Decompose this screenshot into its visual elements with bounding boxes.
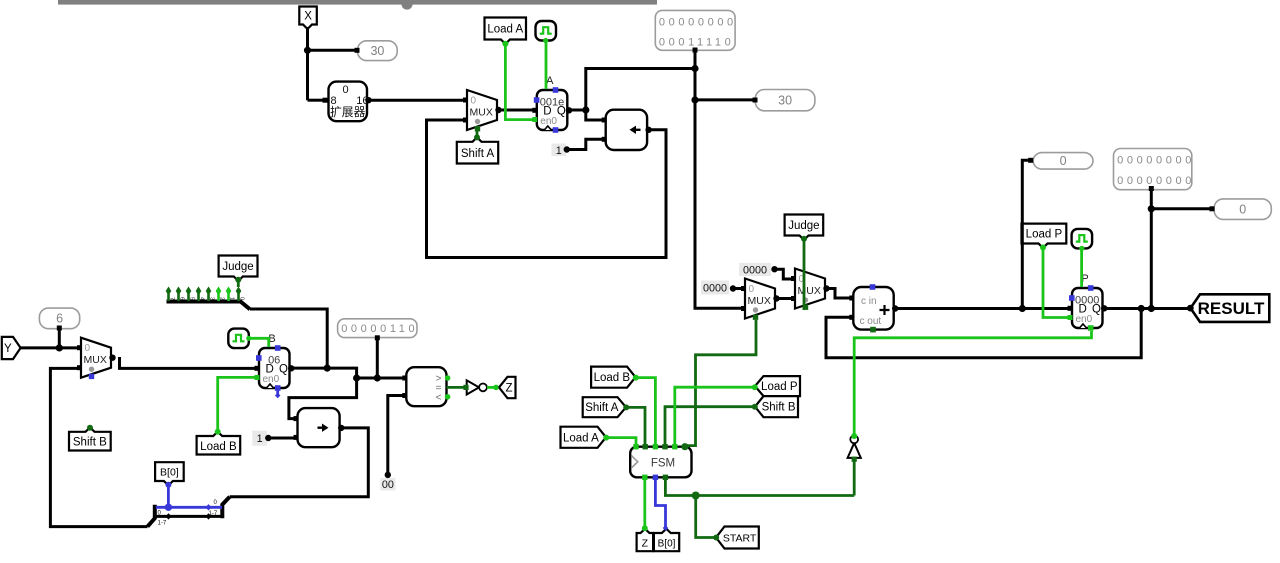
svg-text:Q: Q	[279, 363, 288, 375]
tunnel B[0] (FSM bottom)	[654, 529, 679, 551]
clock CLK2	[228, 329, 251, 349]
wire FSM B[0] out (blue)	[655, 477, 668, 531]
wire comparator = to inverter	[447, 386, 466, 389]
not gate U10 (START inverter)	[848, 433, 861, 462]
splitter S2 (left)	[148, 505, 167, 527]
shifter left U2	[602, 110, 652, 150]
svg-text:0: 0	[239, 297, 245, 300]
wire Judge to mux U8 select	[801, 236, 807, 310]
wire Judge to splitter S1	[235, 277, 241, 287]
wire Shift B tunnel stub	[87, 425, 93, 431]
svg-text:Load B: Load B	[200, 441, 237, 453]
constant 1 (A shifter)	[552, 144, 571, 157]
clock CLK3	[1072, 229, 1093, 251]
svg-text:0000: 0000	[743, 264, 767, 276]
svg-text:Load B: Load B	[594, 372, 631, 384]
svg-text:Load P: Load P	[761, 381, 798, 393]
svg-text:Load A: Load A	[487, 24, 523, 36]
wire mux U3 to register B (broken)	[120, 357, 256, 368]
tunnel Load P (top right)	[1022, 224, 1067, 248]
wire B to shifter U4	[289, 378, 357, 419]
wire adder to register P	[895, 305, 1067, 312]
svg-text:en0: en0	[263, 374, 280, 385]
wire P feedback to adder	[826, 309, 1141, 358]
svg-text:7: 7	[169, 297, 175, 300]
wire B bus to display B	[375, 335, 380, 378]
svg-text:Z: Z	[642, 538, 649, 550]
tunnel Load A (top)	[485, 18, 527, 45]
mux U7	[741, 279, 780, 320]
wire Shift B FSM	[665, 404, 758, 446]
constant 0000 a	[701, 281, 736, 295]
svg-text:0000: 0000	[703, 283, 727, 295]
constant 00	[380, 472, 395, 491]
wire Shift A FSM	[623, 404, 645, 446]
tunnel Shift A (top)	[457, 137, 498, 163]
svg-text:6: 6	[179, 297, 185, 300]
wire FSM to START / inverter	[665, 461, 854, 541]
svg-text:1: 1	[229, 297, 235, 300]
wire Load P FSM	[675, 384, 758, 446]
svg-text:3: 3	[209, 297, 215, 300]
splitter S3 (right)	[209, 497, 230, 519]
svg-text:0: 0	[749, 284, 755, 295]
svg-text:6: 6	[56, 312, 63, 326]
wire Y to mux U3	[21, 326, 78, 352]
register A	[532, 75, 572, 133]
wire clock CLK2 to register B	[249, 338, 269, 347]
tunnel Shift A (FSM)	[583, 397, 626, 417]
wire mux U7 to mux U8	[777, 297, 793, 300]
svg-text:1: 1	[556, 145, 562, 157]
wire constant 1 to shifter U4	[268, 437, 294, 440]
svg-text:Shift A: Shift A	[461, 148, 495, 160]
svg-text:<: <	[436, 393, 442, 404]
svg-text:00000000: 00000000	[1117, 175, 1195, 187]
wire inverter to Z	[487, 386, 499, 389]
clock CLK1	[536, 21, 557, 43]
svg-text:2: 2	[219, 297, 225, 300]
sign extender 扩展器	[323, 82, 372, 122]
svg-text:MUX: MUX	[470, 107, 493, 119]
constant 1 (B shifter)	[252, 431, 271, 446]
wire FSM to mux U7 select	[681, 320, 756, 450]
wire splitter S1 bus	[250, 309, 327, 368]
wire shifter U4 to splitter S3	[230, 428, 369, 497]
svg-text:Judge: Judge	[222, 261, 253, 273]
binary display P (16-bit)	[1114, 149, 1196, 190]
wire Load A tunnel to register A en	[502, 41, 533, 120]
svg-text:Load A: Load A	[563, 432, 599, 444]
svg-text:0: 0	[1239, 202, 1246, 216]
probe 6 (B value)	[39, 308, 79, 329]
register P	[1068, 273, 1108, 331]
mux U1 (A input select)	[463, 90, 502, 131]
tunnel Y	[2, 337, 21, 359]
svg-text:MUX: MUX	[84, 354, 107, 366]
tunnel Load P (FSM)	[755, 376, 800, 396]
svg-text:B[0]: B[0]	[160, 467, 179, 479]
svg-text:0: 0	[1060, 154, 1067, 168]
tunnel Shift B (bottom left)	[69, 428, 111, 451]
wire shift loop (U2 out to mux U1)	[427, 120, 667, 258]
svg-text:X: X	[304, 11, 312, 23]
wire register A Q net	[568, 69, 696, 121]
tunnel Z (output)	[499, 377, 516, 398]
wire constant 0000a to mux U7	[733, 287, 743, 290]
svg-text:00011110: 00011110	[659, 37, 734, 49]
wire X to probe/extender	[304, 27, 360, 100]
svg-text:00000110: 00000110	[341, 323, 418, 335]
probe 30 (A value)	[755, 90, 815, 111]
wire register P Q to RESULT	[1104, 305, 1194, 312]
tunnel Judge (splitter)	[219, 256, 258, 282]
svg-text:4: 4	[199, 297, 205, 300]
binary display B (8-bit)	[338, 319, 419, 338]
svg-text:0: 0	[85, 343, 91, 354]
tunnel X	[299, 7, 317, 30]
tunnel START	[716, 527, 759, 549]
wire probe 0a tap	[1022, 158, 1033, 309]
svg-text:c out: c out	[860, 316, 882, 327]
wire Load B tunnel to register B en	[215, 377, 255, 434]
tunnel Judge (FSM area)	[785, 215, 824, 241]
wire Load B FSM	[633, 375, 656, 446]
wire inverter to register P reset	[854, 331, 1091, 436]
svg-text:Q: Q	[1092, 303, 1101, 315]
svg-text:Load P: Load P	[1026, 229, 1063, 241]
wire Shift A tunnel to mux U1 select	[474, 128, 480, 140]
svg-text:Y: Y	[4, 343, 12, 355]
svg-text:c in: c in	[861, 296, 877, 307]
svg-text:00000000: 00000000	[659, 16, 737, 28]
wire clock CLK1 to register A	[545, 41, 548, 90]
shifter right U4	[294, 408, 345, 447]
wire clock CLK3 to register P	[1080, 247, 1083, 287]
svg-text:Shift B: Shift B	[762, 402, 796, 414]
binary display A (16-bit)	[655, 10, 737, 50]
svg-text:5: 5	[189, 297, 195, 300]
probe 0 (P value)	[1214, 199, 1271, 220]
wire Load A FSM	[603, 435, 636, 446]
mux U8	[791, 269, 830, 310]
svg-text:Q: Q	[557, 105, 566, 117]
svg-text:RESULT: RESULT	[1198, 299, 1265, 318]
svg-text:Shift A: Shift A	[585, 402, 619, 414]
svg-text:en0: en0	[1076, 314, 1093, 325]
svg-text:FSM: FSM	[651, 458, 675, 470]
constant 0000 b	[739, 263, 778, 277]
wire display A bus down	[691, 48, 757, 309]
svg-text:START: START	[723, 533, 757, 545]
wire mux U8 to adder	[827, 289, 851, 299]
wire mux U1 out to register A	[498, 109, 534, 112]
FSM pins	[633, 444, 677, 480]
wire splitter bits 1-7	[156, 513, 221, 519]
tunnel B[0] (splitter)	[155, 462, 184, 485]
tunnel RESULT	[1191, 294, 1270, 322]
window splitter bar	[58, 0, 657, 10]
wire B[0] net (blue)	[156, 482, 222, 511]
splitter S1 (B bus fan-out)	[166, 287, 250, 310]
probe 0 (c out)	[1033, 153, 1093, 170]
svg-text:MUX: MUX	[798, 285, 821, 297]
svg-text:30: 30	[370, 44, 384, 58]
tunnel Load A (FSM)	[561, 427, 607, 448]
svg-text:Judge: Judge	[788, 220, 819, 232]
svg-text:1-7: 1-7	[158, 521, 167, 527]
wire constant 0000b to mux U8	[775, 269, 793, 279]
svg-text:en0: en0	[540, 116, 557, 127]
register B	[255, 333, 295, 398]
svg-text:00000000: 00000000	[1117, 155, 1195, 167]
wire constant 1 to shifter U2	[567, 139, 604, 149]
tunnel Load B (bottom left)	[197, 432, 241, 455]
mux U3 (B input select)	[77, 338, 116, 379]
svg-text:30: 30	[778, 93, 792, 107]
wire extender to mux U1	[369, 99, 467, 102]
svg-text:Shift B: Shift B	[73, 437, 107, 449]
wire FSM Z out	[642, 477, 648, 531]
wire register B Q net	[290, 365, 405, 382]
probe 30 (X value)	[358, 41, 398, 61]
adder U9	[849, 284, 898, 332]
svg-text:0: 0	[342, 84, 348, 96]
wire constant 00 to comparator	[388, 396, 404, 476]
comparator U5	[402, 367, 450, 406]
wire Load P to register P en	[1040, 245, 1070, 318]
svg-text:0: 0	[471, 96, 477, 107]
wire splitter S2 to mux U3	[50, 368, 147, 526]
FSM box	[630, 447, 691, 478]
svg-text:Z: Z	[505, 383, 512, 395]
svg-text:00: 00	[382, 479, 394, 491]
not gate U6 (Z)	[463, 380, 498, 394]
tunnel Shift B (FSM)	[755, 396, 798, 417]
svg-text:MUX: MUX	[748, 295, 771, 307]
svg-text:扩展器: 扩展器	[330, 105, 366, 119]
tunnel Load B (FSM)	[591, 367, 635, 388]
wire display P bus	[1148, 186, 1215, 309]
svg-text:1: 1	[257, 433, 263, 445]
tunnel Z (FSM bottom)	[637, 529, 654, 551]
svg-text:B[0]: B[0]	[658, 539, 676, 550]
